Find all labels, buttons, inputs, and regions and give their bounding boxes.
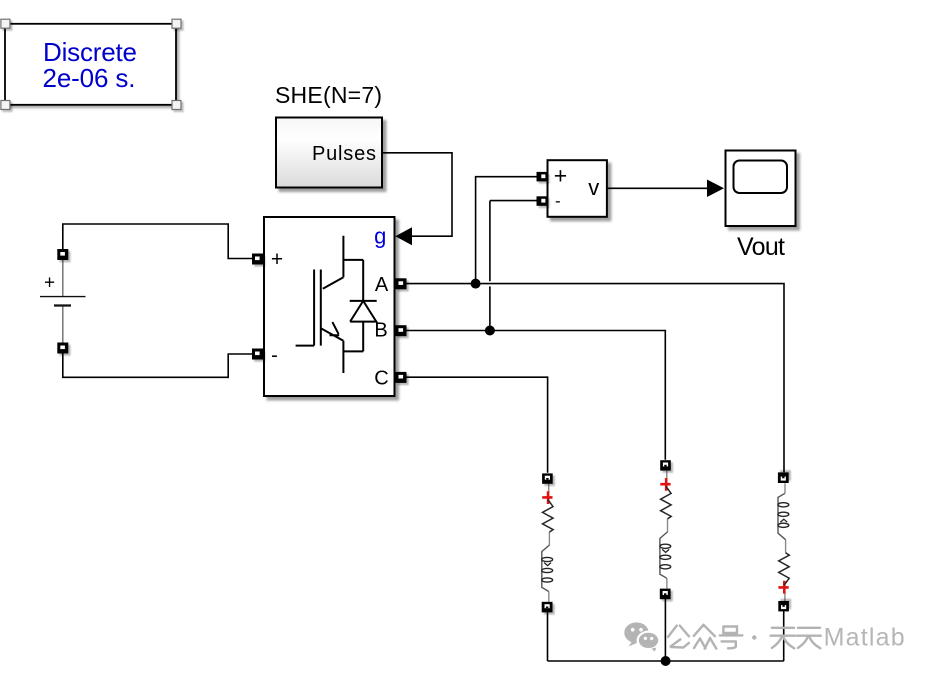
svg-text:-: - [555,192,561,211]
svg-text:+: + [554,163,567,189]
watermark text Matlab [824,624,905,652]
junction node on phase A [471,279,481,289]
bridge output port C [396,372,407,383]
svg-text:-: - [271,344,278,366]
battery bottom port [57,343,68,354]
subsystem block Pulses [276,118,382,188]
watermark text gong [668,626,689,648]
svg-text:v: v [588,175,599,200]
wire phase C [407,377,548,473]
powergui block "Discrete 2e-06 s." [5,24,176,105]
svg-text:Vout: Vout [737,233,785,261]
svg-text:2e-06 s.: 2e-06 s. [43,63,136,93]
bridge plus input port [252,254,263,265]
watermark wechat icon [624,622,659,651]
svg-text:A: A [375,274,389,296]
watermark text tian 2 [797,628,821,649]
IGBT bridge block U1 [264,217,395,396]
selection handle top-left [1,19,10,28]
svg-text:B: B [374,320,387,342]
annotation "SHE(N=7)" [275,82,382,108]
watermark text tian 1 [771,628,795,649]
wire voltmeter to scope [607,187,707,189]
series RLC branch load C (left) [542,473,553,612]
wire load B to neutral bus [664,599,666,661]
wire load C to neutral bus [547,613,549,662]
bridge output port A [396,278,407,289]
series RLC branch load B (middle) [660,460,671,599]
wire battery minus to bridge minus [63,354,252,378]
selection handle bottom-left [1,101,10,110]
wire phase B [407,331,666,460]
selection handle bottom-right [172,101,181,110]
junction node on phase B [485,326,495,336]
watermark separator dot [752,635,756,639]
watermark text zhong [694,625,717,649]
voltage measurement block [548,160,607,217]
svg-text:+: + [44,273,55,294]
neutral junction node [661,656,671,666]
voltmeter minus port [537,196,548,206]
neutral bus wire [548,660,784,662]
wire Pulses output to g input [383,153,453,236]
selection handle top-right [172,19,181,28]
svg-text:Pulses: Pulses [312,143,376,165]
antiparallel diode symbol inside U1 [350,260,377,352]
wire load A to neutral bus [783,611,785,661]
svg-text:+: + [271,248,283,271]
bridge minus input port [252,349,263,360]
wire phase A [407,284,785,473]
watermark text hao [720,627,743,649]
wire battery plus to bridge plus [63,224,252,259]
arrowhead into g port [395,227,412,245]
voltmeter plus port [537,172,548,182]
series RLC branch load A (right, flipped) [778,472,789,611]
wire voltmeter minus tap [490,201,537,331]
svg-text:g: g [374,224,386,249]
svg-text:Matlab: Matlab [824,624,905,652]
bridge output port B [396,325,407,336]
svg-text:SHE(N=7): SHE(N=7) [275,82,382,108]
wire voltmeter plus tap [476,177,537,284]
DC voltage source battery [40,260,86,343]
scope block Vout [726,151,796,262]
svg-text:C: C [374,368,388,390]
IGBT transistor symbol inside U1 [296,236,364,373]
battery top port [57,249,68,260]
arrowhead into scope [707,180,724,198]
